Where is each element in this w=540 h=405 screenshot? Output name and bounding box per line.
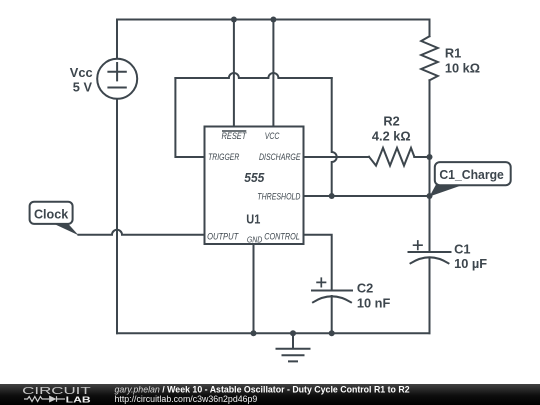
svg-text:U1: U1	[246, 213, 260, 227]
ground symbol	[277, 333, 310, 361]
wire feedback right vertical with hop over DISCHARGE wire	[332, 78, 337, 196]
capacitor C1 plus sign	[414, 241, 422, 249]
wire Vcc bottom lead	[116, 100, 118, 333]
voltage source V1 circle	[97, 59, 137, 99]
svg-text:Vcc: Vcc	[70, 65, 93, 80]
wire feedback top with hops over RESET and VCC wires	[175, 73, 331, 78]
svg-text:Clock: Clock	[34, 207, 69, 221]
wire bottom rail	[117, 332, 430, 334]
voltage source plus sign	[108, 63, 125, 80]
svg-text:R2: R2	[383, 113, 399, 128]
node flag C1_Charge	[430, 162, 511, 196]
wire CONTROL to C2	[304, 235, 332, 291]
node junction feedback/THRESHOLD	[329, 193, 335, 199]
svg-text:RESET: RESET	[222, 130, 248, 141]
resistor R1 zigzag	[421, 36, 438, 80]
svg-text:TRIGGER: TRIGGER	[208, 151, 239, 162]
capacitor C1 curved plate	[411, 257, 449, 263]
op-amp 555 IC body U1	[205, 127, 304, 245]
wire VCC pin to top rail	[272, 20, 274, 127]
node junction RESET/top rail	[231, 17, 237, 23]
svg-text:CONTROL: CONTROL	[264, 230, 300, 241]
wire THRESHOLD to C1_Charge node	[304, 195, 430, 197]
wire RESET pin to top rail	[233, 20, 235, 127]
RESET pin overline	[222, 130, 246, 132]
svg-text:DISCHARGE: DISCHARGE	[259, 151, 301, 162]
wire Vcc top lead	[116, 20, 118, 60]
node junction GND/bottom rail	[251, 330, 257, 336]
wire top rail	[117, 19, 430, 21]
node junction R2/R1	[427, 154, 433, 160]
node junction C2/bottom rail	[329, 330, 335, 336]
logo schematic squiggle	[24, 396, 65, 402]
node junction VCC/top rail	[270, 17, 276, 23]
svg-text:THRESHOLD: THRESHOLD	[257, 191, 300, 202]
resistor R2 zigzag	[369, 148, 414, 166]
wire OUTPUT with hop over Vcc wire	[78, 230, 204, 235]
wire GND pin to bottom rail	[253, 244, 255, 333]
wire TRIGGER feedback left segment	[175, 78, 204, 157]
wire R1 top lead	[429, 20, 431, 37]
wire R1 bottom lead down to node	[429, 80, 431, 196]
capacitor C2 plus sign	[317, 278, 325, 286]
wire DISCHARGE lead left	[304, 156, 370, 158]
voltage source minus sign	[108, 87, 125, 89]
svg-text:4.2 kΩ: 4.2 kΩ	[372, 128, 411, 143]
svg-text:VCC: VCC	[265, 130, 280, 141]
wire C2 bottom lead	[331, 296, 333, 333]
svg-text:GND: GND	[247, 236, 263, 245]
svg-text:OUTPUT: OUTPUT	[207, 230, 239, 241]
svg-text:C2: C2	[357, 280, 373, 295]
capacitor C2 curved plate	[313, 296, 351, 302]
wire C1 bottom lead	[429, 258, 431, 334]
svg-text:C1_Charge: C1_Charge	[439, 167, 504, 182]
capacitor C1 top plate	[409, 251, 451, 253]
wire DISCHARGE lead right of R2	[414, 156, 429, 158]
svg-text:R1: R1	[445, 45, 461, 60]
svg-text:5 V: 5 V	[73, 80, 93, 95]
svg-text:C1: C1	[454, 241, 470, 256]
wire C1 top lead	[429, 196, 431, 252]
node C1_Charge junction	[427, 193, 433, 199]
svg-text:LAB: LAB	[66, 396, 91, 405]
node junction ground symbol/bottom rail	[290, 330, 296, 336]
svg-text:10 kΩ: 10 kΩ	[445, 60, 480, 75]
node flag Clock	[30, 202, 79, 236]
capacitor C2 top plate	[312, 290, 352, 292]
logo diode triangle	[49, 396, 56, 403]
svg-text:555: 555	[244, 171, 265, 185]
svg-text:10 nF: 10 nF	[357, 295, 391, 310]
svg-text:http://circuitlab.com/c3w36n2p: http://circuitlab.com/c3w36n2pd46p9	[115, 394, 258, 404]
svg-text:10 µF: 10 µF	[454, 256, 487, 271]
footer bar	[0, 384, 540, 405]
